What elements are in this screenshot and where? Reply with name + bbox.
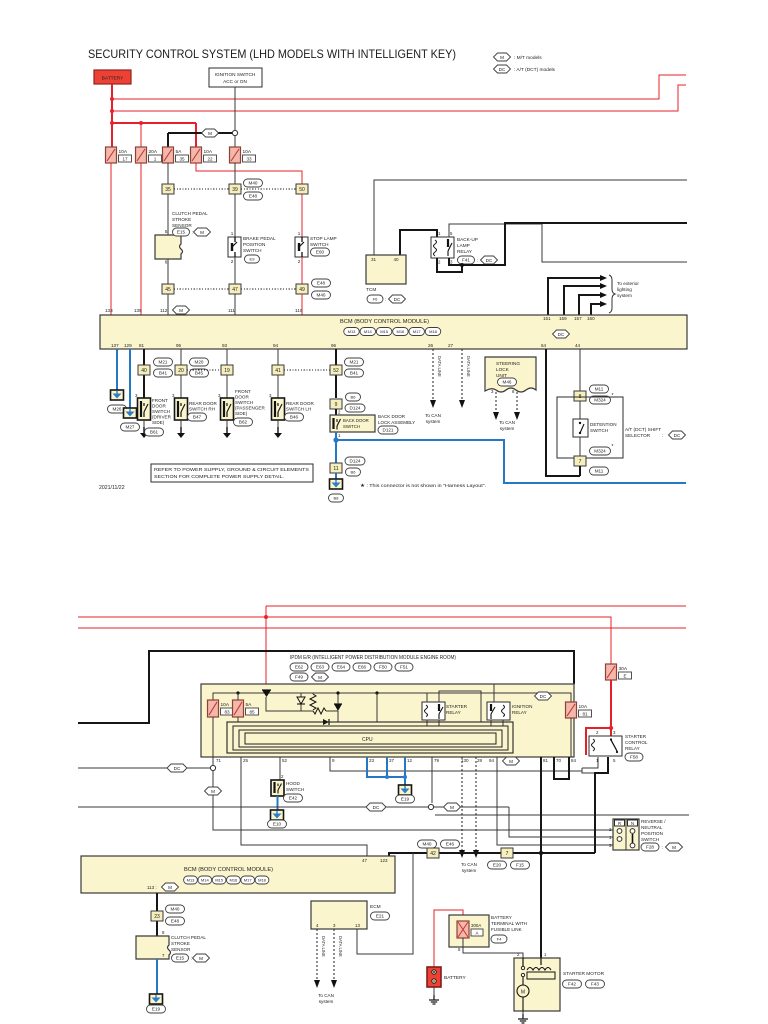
- dashed data line 26: [432, 349, 434, 400]
- diode D4: [323, 719, 329, 725]
- svg-text:8: 8: [162, 930, 165, 935]
- svg-text:M: M: [318, 675, 322, 680]
- svg-text:SWITCH RH: SWITCH RH: [189, 407, 215, 412]
- svg-text:DOOR: DOOR: [152, 404, 166, 409]
- svg-text:M18: M18: [429, 329, 438, 334]
- wire fuse4 to stop lamp feed: [196, 163, 302, 184]
- wire DC line2: [78, 806, 509, 808]
- svg-text:E20: E20: [493, 863, 502, 868]
- junction back door ground: [333, 437, 338, 442]
- wire red relay wrap: [586, 728, 611, 755]
- ignition switch: [209, 68, 262, 87]
- svg-text:M: M: [509, 759, 513, 764]
- svg-text:135: 135: [134, 308, 142, 313]
- front door switch passenger connector: [234, 418, 253, 426]
- svg-text:85: 85: [249, 710, 255, 715]
- connector 50: [296, 184, 308, 194]
- wire starter relay contact out: [438, 720, 440, 726]
- wire fuse85 drop: [237, 693, 239, 700]
- svg-text:E48: E48: [317, 281, 326, 286]
- stop lamp switch connector E60: [311, 248, 330, 256]
- svg-text:M: M: [168, 885, 172, 890]
- junction battery busC: [110, 121, 114, 125]
- wire red bus C: [112, 122, 196, 124]
- wire fuse3 drop: [167, 133, 169, 147]
- dashed steering CAN 8: [516, 392, 518, 412]
- back-up lamp relay F41: [431, 231, 454, 265]
- wire RN pin1 feed: [509, 807, 613, 837]
- svg-text:5: 5: [613, 758, 616, 763]
- IPDM connector E62: [290, 663, 308, 671]
- ground connector E19 clutch: [147, 1005, 166, 1013]
- wire 30A to starter control relay: [610, 680, 612, 728]
- BCM pin112 M/T tag: [173, 306, 190, 314]
- ground terminal E10: [271, 810, 284, 820]
- svg-text:To CAN: To CAN: [499, 420, 515, 425]
- wire fusible link out: [463, 938, 523, 958]
- connector 23: [151, 911, 163, 921]
- back-up relay connector F41: [458, 256, 479, 264]
- wire clutch sensor to 45: [167, 259, 169, 284]
- svg-text:REVERSE /: REVERSE /: [641, 819, 666, 824]
- svg-text:81: 81: [139, 343, 145, 348]
- clutch sensor 2 MT tag: [193, 954, 210, 962]
- front door switch driver label: [152, 398, 172, 425]
- DC tag line1: [167, 764, 187, 772]
- resistor R1: [310, 694, 316, 710]
- wire ignition branch to fuse3: [168, 132, 232, 134]
- svg-text:M16: M16: [230, 878, 239, 883]
- to CAN system label a: [425, 413, 441, 424]
- ground rear door LH: [274, 427, 282, 438]
- svg-text:M15: M15: [380, 329, 389, 334]
- power supply note box: [151, 464, 313, 482]
- wire fuse81 out: [570, 718, 572, 757]
- svg-text:1: 1: [231, 231, 234, 236]
- svg-text:SENSOR: SENSOR: [171, 947, 191, 952]
- svg-text::: :: [192, 230, 193, 235]
- svg-text:E63: E63: [316, 665, 325, 670]
- svg-text:10A: 10A: [221, 702, 230, 708]
- svg-text:SECURITY CONTROL SYSTEM (LHD M: SECURITY CONTROL SYSTEM (LHD MODELS WITH…: [88, 47, 456, 61]
- svg-text:M26: M26: [113, 407, 122, 412]
- svg-text:96: 96: [331, 343, 337, 348]
- clutch sensor label: [172, 211, 208, 228]
- wire relay pin3 net: [449, 223, 687, 265]
- svg-text:BRAKE PEDAL: BRAKE PEDAL: [243, 236, 276, 241]
- svg-text:DC: DC: [174, 766, 181, 771]
- brake pedal position switch E9: [228, 231, 241, 264]
- wire 35 to clutch sensor: [167, 194, 169, 235]
- svg-text:157: 157: [574, 316, 582, 321]
- svg-text:M11: M11: [595, 387, 604, 392]
- fuse 10A 22: [191, 147, 217, 163]
- BCM connector M14: [360, 328, 376, 336]
- wire 47 to BCM 111: [234, 294, 236, 315]
- wire zener out: [300, 704, 302, 711]
- to CAN system label c: [461, 862, 477, 873]
- dashed steering CAN 3: [495, 392, 497, 412]
- ground terminal M27: [124, 408, 137, 418]
- arrowhead ECM CAN 3: [331, 980, 337, 988]
- ignition relay label: [512, 704, 532, 715]
- fuse 10A 33: [230, 147, 256, 163]
- wire BCM96 to connector 52: [335, 349, 337, 398]
- to CAN system label b: [499, 420, 515, 431]
- svg-text:137: 137: [111, 343, 119, 348]
- chassis ground starter: [518, 1014, 528, 1023]
- wire battery feed vertical: [111, 84, 113, 147]
- wire back door switch ground net: [335, 432, 337, 463]
- BCM connector M13: [344, 328, 360, 336]
- svg-text:: M/T models: : M/T models: [514, 55, 542, 61]
- junction battery busA: [110, 97, 114, 101]
- svg-text:2: 2: [231, 259, 234, 264]
- wire fuse85 out: [237, 717, 239, 722]
- svg-text:SWITCH: SWITCH: [243, 248, 262, 253]
- dashed CAN 130: [461, 757, 463, 850]
- back door lock assembly D121: [330, 410, 375, 439]
- hood switch connector E42: [284, 794, 303, 802]
- wire fuse5 to connector 39: [234, 163, 236, 184]
- wire rear door LH ground: [277, 420, 279, 427]
- TCM connector F6: [367, 295, 386, 303]
- starter control relay connector F58: [625, 753, 643, 761]
- junction blue 37: [385, 775, 389, 779]
- connector 19: [221, 365, 233, 375]
- zener diode D2: [297, 697, 305, 704]
- connector B6 tag b: [346, 468, 361, 476]
- svg-text:1: 1: [298, 231, 301, 236]
- wire 7 down to BCM64 net: [579, 466, 581, 476]
- svg-text:B6: B6: [351, 470, 357, 475]
- svg-text:M: M: [500, 55, 504, 60]
- BCM label: [340, 319, 429, 325]
- svg-text:E19: E19: [401, 797, 410, 802]
- svg-text:STARTER: STARTER: [446, 704, 468, 709]
- brake switch connector E9: [245, 255, 260, 263]
- BCM top pin 151: [543, 316, 551, 321]
- svg-text:M14: M14: [201, 878, 210, 883]
- svg-text:5A: 5A: [176, 149, 183, 155]
- svg-text:STROKE: STROKE: [171, 941, 190, 946]
- BCM bottom pin 137: [111, 343, 119, 348]
- IPDM internal bus: [213, 693, 571, 702]
- svg-text:M27: M27: [126, 425, 135, 430]
- BCM connector M16: [393, 328, 409, 336]
- connector M11 tag b: [590, 467, 609, 475]
- svg-text:E15: E15: [176, 956, 185, 961]
- svg-text:1: 1: [154, 157, 157, 162]
- svg-text:BATTERY: BATTERY: [102, 76, 124, 82]
- svg-text:84: 84: [571, 758, 577, 763]
- wire red bus B: [112, 85, 686, 111]
- starter motor label: [563, 971, 605, 977]
- svg-text:5: 5: [165, 229, 168, 234]
- arrowhead exterior lighting 4: [600, 301, 607, 307]
- wire BCM137 ground: [116, 349, 118, 390]
- wire driver door switch ground: [143, 420, 145, 427]
- svg-text:7: 7: [579, 459, 582, 465]
- clutch sensor connector E15: [173, 228, 194, 236]
- battery terminal label: [491, 915, 527, 932]
- clutch sensor 2 label: [171, 935, 206, 952]
- svg-text:DC: DC: [540, 694, 547, 699]
- svg-text::: :: [191, 956, 192, 961]
- wire BCM123 net: [389, 853, 595, 856]
- svg-text:2: 2: [298, 259, 301, 264]
- dashed ECM CAN 3: [333, 929, 335, 980]
- starter motor F42 F43: [514, 958, 560, 1011]
- svg-text:11: 11: [333, 466, 338, 472]
- IPDM E/R module box: [201, 684, 574, 757]
- fuse 10A 17: [106, 147, 132, 163]
- svg-text:M: M: [179, 308, 183, 313]
- ECM data line label 4: [321, 936, 326, 957]
- svg-text:STARTER MOTOR: STARTER MOTOR: [563, 971, 605, 977]
- svg-text:LAMP: LAMP: [457, 243, 470, 248]
- BCM top pin 160: [587, 316, 595, 321]
- svg-text:M17: M17: [413, 329, 422, 334]
- svg-text:E62: E62: [295, 665, 304, 670]
- svg-text:M40: M40: [171, 907, 180, 912]
- wire red bus A: [112, 75, 686, 99]
- svg-text:UNIT: UNIT: [496, 373, 507, 378]
- svg-text:SWITCH: SWITCH: [310, 242, 329, 247]
- wire battery 2 ground: [433, 987, 435, 995]
- svg-text:To CAN: To CAN: [318, 993, 334, 998]
- svg-text:23: 23: [154, 914, 160, 920]
- IPDM pin 23: [369, 758, 375, 763]
- svg-text:(DRIVER: (DRIVER: [152, 415, 172, 420]
- svg-text:HOOD: HOOD: [286, 781, 300, 786]
- wire BCM81 to connector 40: [143, 349, 145, 398]
- BCM body control module 2: [81, 856, 395, 893]
- svg-text:6: 6: [165, 260, 168, 265]
- arrowhead CAN 28: [473, 850, 479, 858]
- wire IPDM outer loop: [78, 651, 574, 723]
- arrowhead steering CAN 3: [493, 412, 499, 420]
- svg-text:M16: M16: [397, 329, 406, 334]
- connector M20 tag: [190, 358, 209, 366]
- wire BCM94 to connector 41: [277, 349, 279, 398]
- svg-text:: A/T (DCT) models: : A/T (DCT) models: [514, 67, 556, 73]
- svg-text:system: system: [319, 999, 334, 1004]
- wire diode D1 out: [266, 697, 313, 711]
- connector D124 tag a: [345, 404, 365, 412]
- svg-text:RELAY: RELAY: [446, 710, 461, 715]
- svg-text:M13: M13: [348, 329, 357, 334]
- back door lock assembly label: [378, 414, 415, 425]
- svg-text:B62: B62: [239, 420, 248, 425]
- svg-text:F43: F43: [591, 982, 599, 987]
- svg-text:12: 12: [407, 758, 413, 763]
- svg-text:M: M: [211, 789, 215, 794]
- steering lock pin 8: [512, 389, 515, 394]
- wire front door passenger ground: [226, 420, 228, 427]
- connector M40 tag c: [418, 840, 437, 848]
- arrowhead exterior lighting 3: [600, 292, 607, 298]
- ground terminal B8: [330, 479, 343, 489]
- detention switch label: [590, 422, 617, 433]
- svg-text:M40: M40: [249, 181, 258, 186]
- svg-text:M46: M46: [503, 380, 512, 385]
- wire 377 drop: [376, 693, 378, 722]
- svg-text:2: 2: [438, 260, 441, 265]
- IPDM pin 71: [216, 758, 222, 763]
- svg-text:2021/11/22: 2021/11/22: [99, 485, 125, 491]
- wire BCM64 down: [546, 349, 580, 476]
- wire 8 to detention switch: [579, 401, 581, 419]
- shift selector label: [625, 427, 663, 438]
- svg-text:DOOR: DOOR: [235, 395, 249, 400]
- wire DC line: [78, 767, 210, 769]
- svg-text:2: 2: [596, 730, 599, 735]
- svg-text:DC: DC: [486, 258, 493, 263]
- svg-text:M21: M21: [350, 360, 359, 365]
- BCM bottom pin 26: [428, 343, 434, 348]
- svg-text:E48: E48: [249, 194, 258, 199]
- svg-text:D124: D124: [350, 459, 361, 464]
- svg-text:151: 151: [543, 316, 551, 321]
- ground connector E19 ipdm: [396, 795, 415, 803]
- svg-text:1: 1: [544, 952, 547, 957]
- BCM bottom pin 64: [541, 343, 547, 348]
- svg-text:CLUTCH PEDAL: CLUTCH PEDAL: [172, 211, 208, 216]
- steering lock unit M46: [485, 357, 536, 392]
- svg-text:F50: F50: [379, 665, 387, 670]
- svg-text:45: 45: [165, 287, 171, 293]
- svg-text:B8: B8: [334, 496, 340, 501]
- BCM bottom pin 129: [124, 343, 132, 348]
- wire TCM 31 output: [374, 180, 687, 255]
- svg-text:DC: DC: [674, 433, 681, 438]
- svg-text:E46: E46: [446, 842, 455, 847]
- BCM2 top pin 47: [362, 858, 368, 863]
- svg-text:2: 2: [338, 410, 341, 415]
- rear door switch LH label: [286, 401, 315, 412]
- svg-text:ECM: ECM: [370, 904, 381, 910]
- connector 42: [427, 848, 439, 858]
- connector 9: [330, 399, 342, 409]
- svg-text:M324: M324: [594, 398, 606, 403]
- battery terminal pin 8: [458, 947, 461, 952]
- IPDM pin94 M/T tag: [503, 757, 520, 765]
- wire BCM95 to connector 20: [180, 349, 182, 398]
- TCM label: [366, 287, 376, 293]
- svg-text:47: 47: [362, 858, 368, 863]
- wire relay pin5 down: [595, 757, 608, 853]
- svg-text:F4: F4: [497, 937, 502, 942]
- svg-text:SECTION FOR COMPLETE POWER SUP: SECTION FOR COMPLETE POWER SUPPLY DETAIL…: [154, 474, 284, 480]
- svg-text:B47: B47: [193, 415, 202, 420]
- front door switch passenger B62: [218, 393, 234, 420]
- connector 39: [229, 184, 241, 194]
- IPDM pin 9: [332, 758, 335, 763]
- wire TCM 40 to relay coil: [400, 230, 437, 255]
- svg-text:BCM (BODY CONTROL MODULE): BCM (BODY CONTROL MODULE): [340, 319, 429, 325]
- svg-text:95: 95: [176, 343, 182, 348]
- wire R1 top: [312, 693, 314, 694]
- CPU box: [245, 733, 496, 744]
- svg-text:A/T (DCT) SHIFT: A/T (DCT) SHIFT: [625, 427, 661, 432]
- BCM2 top pin 123: [380, 858, 388, 863]
- wire starter relay top link: [439, 691, 481, 722]
- svg-text:27: 27: [448, 343, 454, 348]
- svg-text:CONTROL: CONTROL: [625, 740, 648, 745]
- connector 40: [138, 365, 150, 375]
- svg-text:N: N: [631, 821, 634, 826]
- connector M21 tag b: [345, 358, 364, 366]
- svg-text:35: 35: [165, 187, 171, 193]
- connector 47: [229, 284, 241, 294]
- svg-text:E64: E64: [337, 665, 346, 670]
- battery terminal connector F4: [491, 935, 507, 943]
- svg-text:SWITCH: SWITCH: [641, 837, 659, 842]
- svg-text:B41: B41: [159, 371, 168, 376]
- svg-text:DATA LINE: DATA LINE: [466, 356, 471, 377]
- svg-text:system: system: [462, 868, 477, 873]
- svg-text:3: 3: [491, 389, 494, 394]
- connector 41: [272, 365, 284, 375]
- svg-text:D124: D124: [350, 406, 361, 411]
- arrowhead exterior lighting 2: [600, 283, 607, 289]
- svg-text:81: 81: [582, 712, 588, 717]
- wire rear door RH ground: [180, 420, 182, 427]
- svg-text:20: 20: [178, 368, 184, 374]
- ground connector B8: [329, 494, 344, 502]
- wire brake switch to 47: [234, 257, 236, 284]
- svg-text:M: M: [450, 805, 454, 810]
- BCM connector M15: [376, 328, 392, 336]
- starter motor connector F42: [563, 980, 582, 988]
- connector 7b: [501, 848, 513, 858]
- svg-text:8: 8: [512, 389, 515, 394]
- IPDM connector E64: [332, 663, 350, 671]
- connector M40 tag2: [312, 291, 331, 299]
- svg-text:10A: 10A: [204, 149, 213, 155]
- fuse 10A 83: [208, 700, 234, 717]
- arrowhead steering CAN 8: [514, 412, 520, 420]
- wire relay pin2 loop: [437, 258, 462, 272]
- svg-text:E48: E48: [171, 919, 180, 924]
- shift selector DCT tag: [669, 431, 686, 439]
- svg-text:system: system: [500, 426, 515, 431]
- ground connector M26: [108, 405, 127, 413]
- stop lamp switch E60: [295, 231, 308, 264]
- wire red bus D: [266, 605, 686, 607]
- IPDM pin 12: [407, 758, 413, 763]
- ground terminal E19 ipdm: [399, 785, 412, 795]
- svg-text:IPDM E/R (INTELLIGENT POWER DI: IPDM E/R (INTELLIGENT POWER DISTRIBUTION…: [290, 655, 456, 661]
- svg-text:STEERING: STEERING: [496, 361, 520, 366]
- svg-text:40: 40: [393, 257, 399, 262]
- connector M324 tag b: [590, 444, 614, 455]
- wire stop lamp to 49: [301, 257, 303, 284]
- svg-text:REFER TO POWER SUPPLY, GROUND: REFER TO POWER SUPPLY, GROUND & CIRCUIT …: [154, 467, 309, 473]
- IPDM pin 94: [489, 758, 495, 763]
- svg-text:BACK DOOR: BACK DOOR: [378, 414, 406, 419]
- IPDM title: [290, 655, 456, 661]
- svg-text:SWITCH: SWITCH: [590, 428, 608, 433]
- dotted link 20-19: [187, 369, 221, 371]
- IPDM pin 28: [477, 758, 483, 763]
- svg-text:2: 2: [281, 774, 284, 779]
- BCM bottom pin 27: [448, 343, 454, 348]
- BCM connector M18: [425, 328, 441, 336]
- connector B45 tag: [190, 369, 209, 377]
- connector 45: [162, 284, 174, 294]
